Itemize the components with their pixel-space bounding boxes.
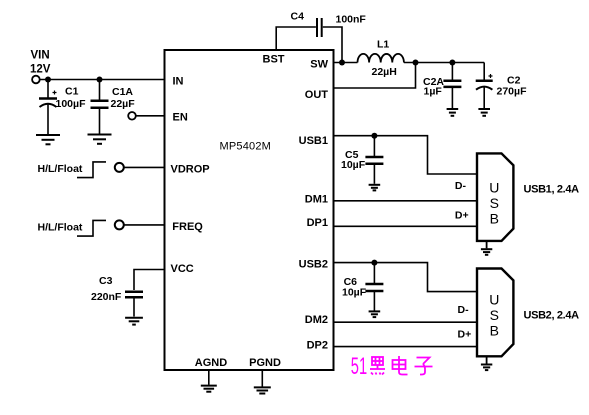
svg-text:MP5402M: MP5402M xyxy=(220,141,272,153)
wire DM2 xyxy=(334,321,478,323)
svg-text:12V: 12V xyxy=(30,63,51,75)
junction dot C1 node xyxy=(45,77,51,83)
junction dot C5 node xyxy=(371,133,377,139)
capacitor C6 xyxy=(342,263,383,311)
wire FREQ xyxy=(124,224,165,226)
wire DP1 xyxy=(334,225,478,227)
capacitor C1A xyxy=(91,80,136,134)
junction dot C6 node xyxy=(371,260,377,266)
inductor L1 xyxy=(358,38,404,78)
ground under C5 xyxy=(369,185,381,191)
wire C4 right leg down to SW node xyxy=(323,27,342,63)
svg-text:B: B xyxy=(490,322,499,338)
capacitor C1 xyxy=(39,80,86,135)
IC U1 MP5402M body xyxy=(165,50,334,370)
svg-text:USB2: USB2 xyxy=(299,258,328,270)
svg-text:AGND: AGND xyxy=(195,357,227,369)
svg-text:DP2: DP2 xyxy=(307,339,328,351)
hanzi hei xyxy=(370,357,385,375)
svg-text:10µF: 10µF xyxy=(341,159,366,171)
step symbol FREQ xyxy=(77,220,106,236)
ground under C1 xyxy=(36,135,60,144)
wire VCC to C3 xyxy=(134,270,165,291)
svg-text:DM2: DM2 xyxy=(305,314,328,326)
USB connector J2 xyxy=(477,269,513,357)
capacitor C2 xyxy=(476,63,527,109)
svg-text:C3: C3 xyxy=(99,275,113,287)
svg-text:D-: D- xyxy=(455,180,467,192)
wire DM1 xyxy=(334,200,478,202)
node VIN label xyxy=(30,50,51,76)
svg-text:U: U xyxy=(489,179,499,195)
EN terminal circle xyxy=(128,112,136,120)
watermark 51heidianzi text xyxy=(351,353,367,380)
svg-text:USB2, 2.4A: USB2, 2.4A xyxy=(524,310,580,322)
capacitor C2A xyxy=(423,63,461,109)
svg-text:C1: C1 xyxy=(65,86,79,98)
wire VIN to IN pin xyxy=(40,79,165,81)
svg-text:FREQ: FREQ xyxy=(172,221,203,233)
ground PGND xyxy=(254,370,271,394)
svg-text:DM1: DM1 xyxy=(305,193,328,205)
wire OUT sense xyxy=(334,63,416,89)
svg-text:H/L/Float: H/L/Float xyxy=(38,221,83,233)
svg-text:10µF: 10µF xyxy=(342,287,367,299)
svg-text:U: U xyxy=(489,291,499,307)
svg-text:OUT: OUT xyxy=(305,89,329,101)
ground under USB connector J2 xyxy=(481,356,492,370)
svg-text:100µF: 100µF xyxy=(56,98,87,110)
svg-text:VCC: VCC xyxy=(171,263,194,275)
svg-text:22µF: 22µF xyxy=(111,98,136,110)
svg-text:D+: D+ xyxy=(458,329,472,341)
svg-text:270µF: 270µF xyxy=(497,86,528,98)
svg-text:B: B xyxy=(490,210,499,226)
FREQ terminal circle xyxy=(115,220,124,229)
svg-text:C4: C4 xyxy=(291,10,305,22)
wire DP2 xyxy=(334,346,478,348)
capacitor C5 xyxy=(341,136,383,184)
hanzi dian xyxy=(393,356,408,375)
svg-text:C1A: C1A xyxy=(112,86,133,98)
ground under C2A xyxy=(447,109,459,116)
svg-text:BST: BST xyxy=(263,54,285,66)
ground under USB connector J1 xyxy=(481,241,492,255)
USB connector J1 xyxy=(477,153,513,241)
wire USB1 pin to connector xyxy=(334,136,478,174)
junction dot SW node xyxy=(339,60,345,66)
svg-text:EN: EN xyxy=(173,112,188,124)
capacitor C3 xyxy=(91,275,143,317)
svg-text:22µH: 22µH xyxy=(372,66,397,78)
svg-text:PGND: PGND xyxy=(249,357,281,369)
ground AGND xyxy=(201,370,217,392)
wire BST stub and top rail xyxy=(276,27,316,50)
step symbol VDROP xyxy=(77,162,106,178)
svg-text:USB1, 2.4A: USB1, 2.4A xyxy=(524,184,580,196)
svg-text:VDROP: VDROP xyxy=(171,163,210,175)
svg-text:L1: L1 xyxy=(377,38,389,50)
ground under C2 xyxy=(478,109,490,116)
hanzi zi xyxy=(415,358,433,375)
ground under C6 xyxy=(369,311,381,317)
svg-text:VIN: VIN xyxy=(31,50,50,62)
svg-text:IN: IN xyxy=(173,75,184,87)
VDROP terminal circle xyxy=(115,163,124,172)
capacitor C4 xyxy=(291,10,367,37)
junction dot C1A node xyxy=(97,77,103,83)
svg-text:D+: D+ xyxy=(455,209,469,221)
VIN terminal circle xyxy=(32,76,40,84)
wire USB2 pin to connector xyxy=(334,263,478,292)
junction dot C2A node xyxy=(449,60,455,66)
svg-text:SW: SW xyxy=(310,58,328,70)
wire VDROP xyxy=(124,166,165,168)
junction dot L1 out node xyxy=(413,60,419,66)
svg-text:100nF: 100nF xyxy=(336,13,367,25)
svg-text:C2: C2 xyxy=(507,74,521,86)
svg-text:1µF: 1µF xyxy=(424,86,443,98)
wire EN xyxy=(136,115,165,117)
svg-text:51: 51 xyxy=(351,353,367,380)
wire SW pin to inductor xyxy=(334,62,358,64)
wire L1 to output rail xyxy=(404,62,484,64)
svg-text:S: S xyxy=(490,307,499,323)
svg-text:H/L/Float: H/L/Float xyxy=(38,163,83,175)
svg-text:USB1: USB1 xyxy=(299,135,328,147)
svg-text:DP1: DP1 xyxy=(307,217,328,229)
svg-text:D-: D- xyxy=(458,304,470,316)
ground under C1A xyxy=(88,135,112,144)
svg-text:S: S xyxy=(490,195,499,211)
ground under C3 xyxy=(125,318,143,325)
svg-text:220nF: 220nF xyxy=(91,291,122,303)
